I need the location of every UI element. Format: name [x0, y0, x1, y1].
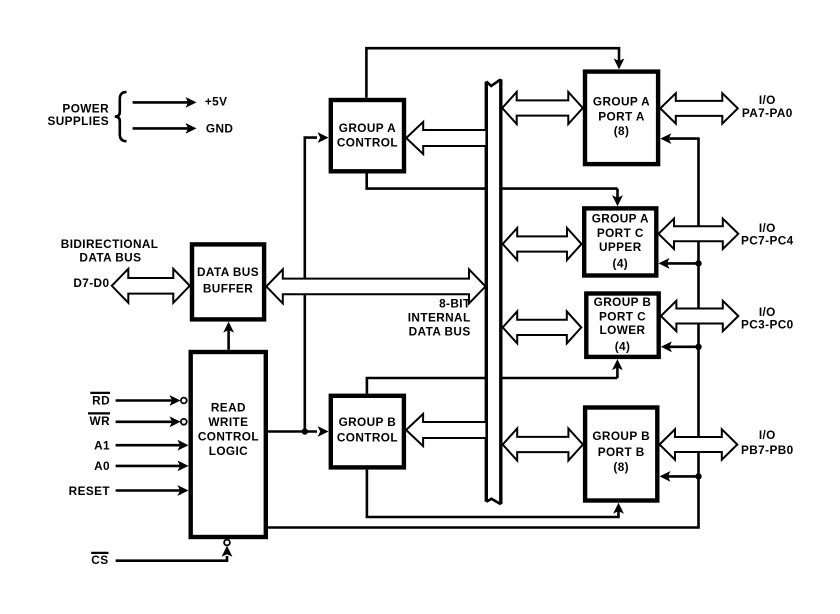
8-bit internal data bus label	[408, 296, 471, 338]
svg-text:PA7-PA0: PA7-PA0	[742, 106, 793, 120]
group B port C lower box	[586, 294, 658, 357]
A1 pin wire	[116, 440, 189, 451]
svg-text:GND: GND	[206, 122, 233, 136]
wire rw logic to port pins (right vertical)	[268, 133, 699, 527]
svg-text:BUFFER: BUFFER	[203, 281, 253, 295]
svg-text:WRITE: WRITE	[208, 415, 248, 429]
group A port A box	[585, 72, 658, 165]
wire group A control to port A (top)	[366, 48, 624, 98]
RESET pin wire	[116, 485, 189, 496]
svg-text:PORT C: PORT C	[597, 226, 644, 240]
wire rw logic to group A control	[305, 132, 329, 431]
svg-text:PB7-PB0: PB7-PB0	[741, 443, 794, 457]
svg-text:PC7-PC4: PC7-PC4	[741, 234, 794, 248]
svg-text:CONTROL: CONTROL	[337, 136, 398, 150]
svg-text:LOWER: LOWER	[600, 323, 646, 337]
svg-text:I/O: I/O	[759, 428, 776, 442]
svg-text:(4): (4)	[615, 339, 631, 353]
group B port B box	[585, 408, 657, 501]
RD pin label	[90, 393, 110, 408]
svg-text:+5V: +5V	[205, 95, 228, 109]
svg-text:8-BIT: 8-BIT	[439, 296, 471, 310]
port C lower I/O arrow	[661, 301, 738, 331]
I/O PA7-PA0 label	[742, 93, 793, 120]
svg-text:DATA BUS: DATA BUS	[409, 325, 471, 339]
port B I/O arrow	[660, 429, 738, 459]
svg-text:(4): (4)	[612, 257, 628, 271]
buffer to internal bus arrow	[266, 269, 485, 303]
svg-text:PORT C: PORT C	[599, 309, 646, 323]
junction dot port C lower branch	[695, 344, 701, 350]
svg-text:DATA BUS: DATA BUS	[197, 265, 259, 279]
svg-text:PORT A: PORT A	[598, 109, 645, 123]
svg-text:INTERNAL: INTERNAL	[408, 311, 471, 325]
svg-text:CS: CS	[91, 553, 108, 567]
group B control box	[331, 396, 404, 468]
internal data bus (vertical bus band)	[486, 79, 501, 504]
svg-text:RESET: RESET	[69, 484, 111, 498]
branch wire to port B pin	[660, 471, 699, 482]
group A port C upper box	[584, 208, 656, 275]
branch wire to port C lower pin	[661, 341, 699, 352]
svg-text:PC3-PC0: PC3-PC0	[741, 318, 794, 332]
power supplies label	[47, 101, 109, 128]
svg-text:WR: WR	[90, 414, 111, 428]
bidirectional data bus label	[61, 237, 159, 265]
svg-text:CONTROL: CONTROL	[337, 430, 398, 444]
GND power pin	[133, 122, 234, 136]
I/O PC7-PC4 label	[741, 221, 794, 248]
internal bus to group A control arrow	[406, 122, 486, 154]
svg-text:GROUP A: GROUP A	[592, 211, 649, 225]
svg-text:(8): (8)	[613, 460, 629, 474]
wire group A control to port C upper	[367, 174, 623, 207]
I/O PC3-PC0 label	[741, 305, 794, 332]
svg-text:GROUP A: GROUP A	[593, 94, 650, 108]
svg-text:GROUP B: GROUP B	[594, 295, 652, 309]
CS pin wire	[116, 540, 233, 561]
svg-text:DATA BUS: DATA BUS	[79, 251, 141, 265]
RD pin wire	[116, 395, 187, 406]
I/O PB7-PB0 label	[741, 428, 794, 457]
internal bus to port B arrow	[503, 429, 583, 461]
svg-text:GROUP B: GROUP B	[339, 415, 397, 429]
internal bus to group B control arrow	[406, 414, 486, 446]
A0 pin wire	[116, 461, 189, 472]
wire group B control to port C lower	[367, 359, 623, 394]
junction dot port C upper branch	[695, 260, 701, 266]
svg-text:LOGIC: LOGIC	[209, 444, 248, 458]
junction dot port B branch	[695, 473, 701, 479]
port C upper I/O arrow	[659, 219, 739, 249]
port A I/O arrow	[660, 93, 738, 123]
internal bus to port C upper arrow	[503, 228, 582, 260]
svg-text:I/O: I/O	[759, 93, 776, 107]
svg-text:PORT B: PORT B	[598, 445, 645, 459]
svg-text:(8): (8)	[614, 124, 630, 138]
svg-text:UPPER: UPPER	[599, 240, 642, 254]
svg-text:CONTROL: CONTROL	[198, 429, 259, 443]
branch wire to port C upper pin	[659, 258, 699, 269]
WR pin wire	[116, 416, 187, 427]
svg-text:SUPPLIES: SUPPLIES	[47, 114, 109, 128]
svg-text:A0: A0	[94, 459, 110, 473]
svg-text:A1: A1	[94, 439, 110, 453]
svg-text:READ: READ	[211, 401, 246, 415]
+5V power pin	[133, 95, 228, 109]
svg-text:BIDIRECTIONAL: BIDIRECTIONAL	[61, 237, 159, 251]
data bus buffer box	[192, 244, 264, 319]
group A control box	[331, 100, 404, 171]
internal bus to port C lower arrow	[503, 311, 582, 343]
wire rw logic to data bus buffer	[223, 322, 234, 350]
wire group B control to port B	[367, 470, 624, 517]
D7-D0 bidirectional bus arrow	[112, 269, 190, 303]
svg-text:D7-D0: D7-D0	[73, 276, 109, 290]
svg-text:GROUP B: GROUP B	[592, 429, 650, 443]
wire rw logic to group B control	[268, 426, 329, 437]
read write control logic box	[191, 352, 266, 537]
internal bus to port A arrow	[502, 92, 583, 124]
power supplies brace	[115, 92, 127, 141]
svg-text:RD: RD	[92, 394, 110, 408]
svg-text:GROUP A: GROUP A	[339, 121, 396, 135]
CS pin label	[91, 553, 108, 567]
WR pin label	[88, 413, 110, 428]
junction dot rw output	[302, 428, 308, 434]
